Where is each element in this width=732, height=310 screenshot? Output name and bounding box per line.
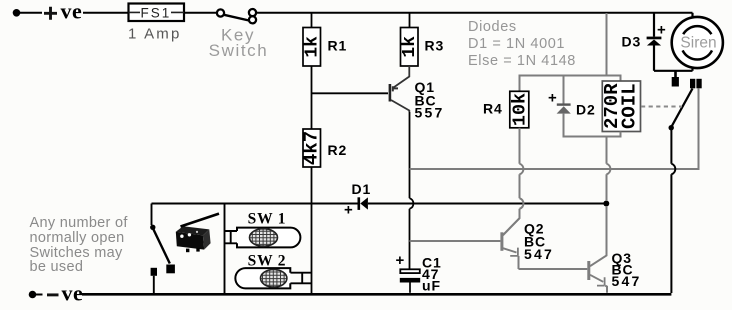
wire top rail	[256, 12, 693, 14]
microswitch pictorial	[176, 214, 219, 253]
switch microswitch symbol pivot dot	[150, 225, 155, 230]
siren output leg	[674, 71, 677, 77]
transistor Q2	[500, 218, 519, 269]
svg-text:1k: 1k	[302, 36, 322, 58]
svg-text:+: +	[396, 252, 405, 269]
wire microswitch terminal to bottom rail	[153, 276, 155, 293]
svg-text:D2: D2	[576, 102, 596, 118]
switch key switch	[217, 9, 256, 23]
wire bottom rail	[82, 293, 671, 296]
svg-text:557: 557	[415, 105, 445, 121]
svg-text:Switch: Switch	[209, 41, 269, 60]
transistor Q1	[389, 66, 410, 112]
switch SW1 body	[225, 228, 301, 248]
svg-text:547: 547	[524, 246, 554, 262]
svg-text:normally open: normally open	[30, 230, 125, 246]
wire +ve stub	[19, 12, 42, 14]
wire collector rail to relay contact	[410, 89, 699, 170]
svg-text:D1: D1	[352, 181, 372, 197]
svg-text:ve: ve	[61, 0, 83, 23]
switch SW2 body	[235, 268, 311, 288]
diode D3	[647, 13, 662, 71]
capacitor C1	[400, 269, 420, 293]
switch SW2 dome	[259, 268, 289, 289]
svg-text:COIL: COIL	[618, 83, 640, 129]
svg-text:547: 547	[612, 273, 642, 289]
svg-text:Siren: Siren	[680, 35, 716, 52]
svg-text:uF: uF	[422, 278, 441, 294]
wire R2 bottom through trigger rail down to bottom rail	[311, 167, 313, 293]
wire R4 bottom to Q2 collector with hops	[503, 128, 520, 235]
wire Q2 base line	[410, 240, 501, 242]
svg-text:FS1: FS1	[141, 6, 172, 21]
wire trigger rail left part	[152, 203, 358, 205]
switch SW1 dome	[248, 227, 279, 248]
svg-text:1k: 1k	[400, 36, 420, 58]
diode D2	[557, 75, 621, 138]
svg-text:SW 2: SW 2	[248, 253, 287, 270]
wire -ve stub	[35, 294, 43, 296]
svg-text:Diodes: Diodes	[468, 19, 517, 35]
resistor R2	[301, 129, 323, 167]
wire R1 bottom to R2 top	[311, 66, 313, 129]
wire fuse to key switch	[184, 12, 217, 14]
resistor R3	[400, 13, 420, 66]
svg-text:ve: ve	[62, 281, 84, 306]
switch microswitch blade	[154, 230, 170, 264]
svg-text:SW 1: SW 1	[248, 211, 287, 228]
node +ve label	[44, 7, 57, 20]
node -ve label	[47, 293, 59, 296]
wire coil net from top rail	[606, 13, 608, 76]
wire +ve to fuse	[83, 12, 128, 14]
node -ve terminal dot	[29, 291, 37, 299]
svg-text:be used: be used	[30, 259, 84, 275]
wire coil bottom and D2 bottom	[607, 132, 621, 202]
wire left branch from trigger rail	[151, 204, 153, 226]
svg-text:R2: R2	[328, 142, 348, 158]
relay contact terminals	[690, 79, 695, 89]
svg-text:D1 = 1N 4001: D1 = 1N 4001	[468, 36, 565, 52]
wire Q1 collector vertical with hop over trigger rail	[409, 112, 411, 198]
svg-text:10k: 10k	[509, 93, 530, 126]
svg-text:R4: R4	[483, 101, 503, 117]
svg-text:R3: R3	[425, 38, 445, 54]
svg-text:+: +	[657, 21, 666, 38]
diode D1	[358, 197, 368, 210]
svg-text:1 Amp: 1 Amp	[128, 26, 182, 43]
relay coil 270R	[601, 81, 641, 132]
resistor R1	[302, 13, 322, 66]
node +ve terminal dot	[13, 9, 21, 17]
svg-text:4k7: 4k7	[301, 131, 323, 165]
wire SW block left vertical	[224, 204, 226, 294]
wire trigger rail right part	[368, 203, 604, 205]
wire coil to contact dashed	[641, 106, 682, 108]
fuse FS1	[129, 4, 185, 22]
svg-text:R1: R1	[328, 38, 348, 54]
wire relay blade to bottom rail with hop	[670, 130, 672, 293]
svg-text:Else = 1N 4148: Else = 1N 4148	[468, 53, 576, 69]
svg-text:Any number of: Any number of	[30, 215, 129, 231]
siren	[654, 13, 723, 71]
transistor Q3	[587, 206, 607, 293]
svg-text:+: +	[548, 90, 557, 107]
wire Q1 base line	[312, 92, 389, 94]
wire Q2 emitter to Q3 base	[519, 268, 588, 270]
switch microswitch terminal squares	[166, 265, 175, 274]
svg-text:+: +	[344, 202, 353, 219]
svg-text:D3: D3	[622, 34, 642, 50]
resistor R4	[509, 76, 530, 128]
relay contact blade	[671, 89, 692, 128]
node junction dot coil/Q3	[603, 201, 609, 207]
